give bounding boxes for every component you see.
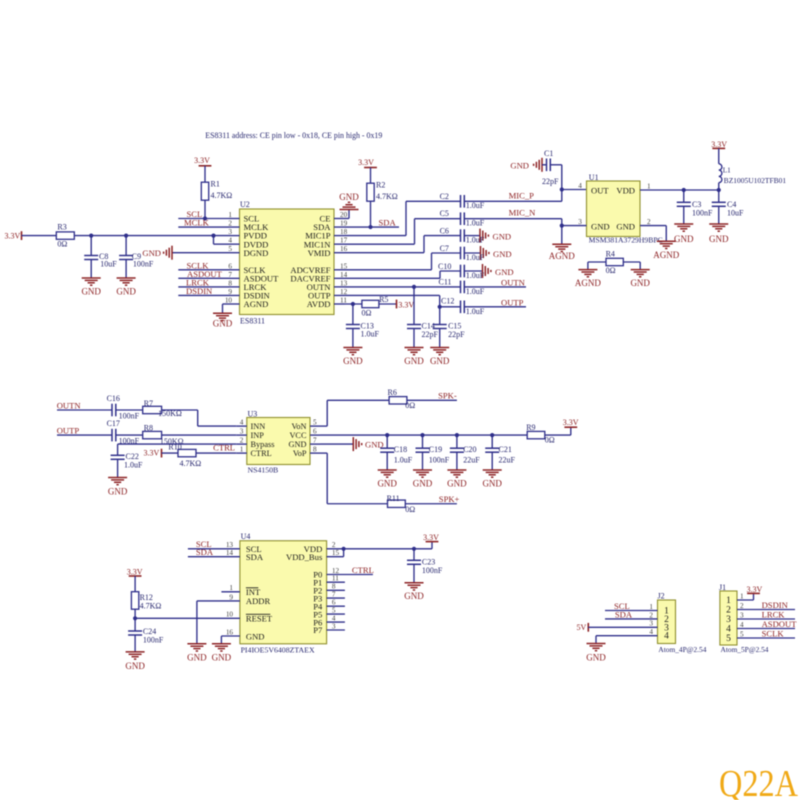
svg-text:4: 4 — [332, 615, 336, 623]
svg-text:9: 9 — [229, 593, 233, 601]
svg-text:GND: GND — [81, 287, 101, 297]
svg-text:AGND: AGND — [575, 278, 601, 288]
svg-text:14: 14 — [226, 549, 234, 557]
svg-text:GND: GND — [212, 653, 232, 663]
svg-text:3: 3 — [726, 615, 731, 625]
svg-text:1.0uF: 1.0uF — [466, 219, 485, 228]
svg-text:VoP: VoP — [293, 449, 307, 458]
svg-text:INP: INP — [251, 431, 265, 440]
svg-text:R3: R3 — [57, 223, 66, 232]
svg-text:Q22A: Q22A — [719, 763, 798, 800]
svg-text:GND: GND — [430, 356, 450, 366]
svg-text:SDA: SDA — [246, 552, 264, 562]
svg-text:6: 6 — [332, 599, 336, 607]
svg-text:GND: GND — [447, 479, 467, 489]
svg-text:R4: R4 — [606, 250, 615, 259]
svg-text:VDD: VDD — [616, 186, 635, 196]
svg-text:C12: C12 — [441, 296, 454, 305]
svg-text:R7: R7 — [144, 399, 153, 408]
svg-text:3.3V: 3.3V — [144, 448, 160, 457]
svg-text:INN: INN — [251, 422, 266, 431]
svg-text:22uF: 22uF — [499, 455, 516, 464]
svg-text:GND: GND — [246, 631, 265, 641]
svg-text:1: 1 — [726, 596, 731, 606]
svg-text:C5: C5 — [440, 209, 449, 218]
svg-text:U2: U2 — [240, 200, 250, 209]
svg-text:3.3V: 3.3V — [747, 585, 763, 594]
svg-text:2: 2 — [740, 602, 744, 610]
svg-text:1: 1 — [229, 584, 233, 592]
svg-text:2: 2 — [240, 437, 244, 445]
svg-text:C1: C1 — [544, 149, 553, 158]
svg-text:3.3V: 3.3V — [711, 140, 727, 149]
svg-text:3.3V: 3.3V — [127, 567, 143, 576]
svg-text:GND: GND — [493, 249, 512, 259]
svg-text:150KΩ: 150KΩ — [158, 409, 182, 418]
svg-text:16: 16 — [340, 245, 348, 253]
svg-text:U4: U4 — [241, 532, 251, 541]
svg-text:C20: C20 — [463, 445, 476, 454]
svg-text:4: 4 — [228, 237, 232, 245]
svg-text:GND: GND — [377, 479, 397, 489]
svg-text:GND: GND — [339, 192, 359, 202]
svg-text:7: 7 — [313, 437, 317, 445]
svg-text:3: 3 — [578, 218, 582, 226]
svg-text:16: 16 — [226, 628, 234, 636]
svg-text:AGND: AGND — [549, 251, 575, 261]
svg-text:4: 4 — [240, 419, 244, 427]
svg-text:C16: C16 — [107, 394, 120, 403]
svg-text:6: 6 — [313, 428, 317, 436]
svg-text:1.0uF: 1.0uF — [361, 330, 380, 339]
svg-text:C11: C11 — [439, 278, 452, 287]
svg-text:2: 2 — [228, 220, 232, 228]
svg-text:PI4IOE5V6408ZTAEX: PI4IOE5V6408ZTAEX — [241, 646, 316, 655]
svg-text:1.0uF: 1.0uF — [466, 236, 485, 245]
svg-text:1: 1 — [228, 211, 232, 219]
svg-text:3: 3 — [649, 620, 653, 628]
svg-text:0Ω: 0Ω — [545, 435, 555, 444]
svg-text:1.0uF: 1.0uF — [466, 253, 485, 262]
svg-text:GND: GND — [482, 479, 502, 489]
svg-text:GND: GND — [116, 287, 136, 297]
svg-text:3.3V: 3.3V — [423, 533, 439, 542]
svg-text:3.3V: 3.3V — [194, 156, 210, 165]
svg-text:1.0uF: 1.0uF — [124, 461, 143, 470]
svg-text:22pF: 22pF — [542, 177, 559, 186]
svg-text:10: 10 — [225, 297, 233, 305]
svg-text:VDD_Bus: VDD_Bus — [286, 552, 323, 562]
svg-text:4.7KΩ: 4.7KΩ — [211, 191, 233, 200]
svg-text:1: 1 — [649, 603, 653, 611]
svg-text:GND: GND — [213, 319, 233, 329]
svg-text:SDA: SDA — [196, 547, 214, 557]
svg-text:ES8311: ES8311 — [240, 317, 265, 326]
svg-text:L1: L1 — [723, 167, 731, 175]
svg-text:18: 18 — [340, 228, 348, 236]
svg-text:GND: GND — [413, 479, 433, 489]
svg-text:1.0uF: 1.0uF — [466, 307, 485, 316]
svg-text:OUTN: OUTN — [57, 400, 82, 410]
svg-text:5: 5 — [228, 245, 232, 253]
svg-text:22pF: 22pF — [422, 330, 439, 339]
svg-text:0Ω: 0Ω — [405, 401, 415, 410]
svg-text:19: 19 — [340, 220, 348, 228]
svg-text:2: 2 — [647, 218, 651, 226]
svg-text:GND: GND — [404, 591, 424, 601]
svg-text:2: 2 — [726, 606, 731, 616]
svg-text:CTRL: CTRL — [251, 449, 272, 458]
svg-text:22pF: 22pF — [448, 330, 465, 339]
svg-text:GND: GND — [630, 278, 650, 288]
svg-text:R6: R6 — [388, 388, 397, 397]
svg-text:6: 6 — [228, 262, 232, 270]
svg-text:4: 4 — [726, 625, 731, 635]
svg-text:CTRL: CTRL — [213, 443, 235, 453]
svg-text:1: 1 — [647, 182, 651, 190]
svg-text:R5: R5 — [379, 295, 388, 304]
svg-text:3: 3 — [228, 228, 232, 236]
svg-text:AVDD: AVDD — [307, 299, 331, 309]
svg-text:9: 9 — [228, 288, 232, 296]
svg-text:3.3V: 3.3V — [563, 418, 579, 427]
svg-text:GND: GND — [493, 231, 512, 241]
svg-text:GND: GND — [404, 356, 424, 366]
svg-text:3: 3 — [332, 622, 336, 630]
svg-text:15: 15 — [332, 549, 340, 557]
svg-text:1.0uF: 1.0uF — [466, 271, 485, 280]
svg-text:GND: GND — [591, 222, 610, 232]
svg-text:R11: R11 — [387, 494, 400, 503]
svg-text:100nF: 100nF — [119, 411, 140, 420]
svg-text:7: 7 — [332, 591, 336, 599]
svg-text:AGND: AGND — [653, 250, 679, 260]
svg-text:GND: GND — [343, 356, 363, 366]
svg-text:RESET: RESET — [246, 614, 273, 624]
svg-text:R9: R9 — [526, 423, 535, 432]
svg-text:CTRL: CTRL — [352, 565, 374, 575]
svg-text:J1: J1 — [719, 583, 726, 592]
svg-text:5: 5 — [726, 634, 731, 644]
svg-text:100nF: 100nF — [429, 455, 450, 464]
svg-text:13: 13 — [226, 541, 234, 549]
svg-text:LRCK: LRCK — [762, 610, 786, 620]
svg-text:MCLK: MCLK — [184, 218, 210, 228]
svg-text:5: 5 — [740, 630, 744, 638]
svg-text:C17: C17 — [107, 419, 120, 428]
svg-text:GND: GND — [289, 440, 307, 449]
svg-text:15: 15 — [340, 262, 348, 270]
svg-text:MIC_P: MIC_P — [509, 191, 535, 201]
svg-text:SDA: SDA — [615, 609, 633, 619]
svg-text:3.3V: 3.3V — [358, 158, 374, 167]
svg-text:R2: R2 — [376, 181, 385, 190]
svg-text:10uF: 10uF — [727, 208, 744, 217]
svg-text:ES8311 address: CE pin low - 0: ES8311 address: CE pin low - 0x18, CE pi… — [205, 131, 382, 140]
svg-text:1.0uF: 1.0uF — [466, 287, 485, 296]
svg-text:Atom_4P@2.54: Atom_4P@2.54 — [658, 646, 706, 654]
svg-text:C10: C10 — [438, 262, 451, 271]
svg-text:DSDIN: DSDIN — [762, 600, 789, 610]
svg-text:GND: GND — [616, 222, 635, 232]
svg-text:C7: C7 — [440, 244, 449, 253]
svg-text:4.7KΩ: 4.7KΩ — [180, 459, 202, 468]
svg-text:GND: GND — [709, 234, 729, 244]
svg-text:DGND: DGND — [244, 248, 269, 258]
svg-text:GND: GND — [586, 652, 606, 662]
svg-text:14: 14 — [340, 271, 348, 279]
svg-text:GND: GND — [187, 653, 207, 663]
svg-text:5: 5 — [332, 607, 336, 615]
svg-text:GND: GND — [365, 439, 384, 449]
svg-text:8: 8 — [332, 583, 336, 591]
svg-text:1: 1 — [740, 592, 744, 600]
svg-text:100nF: 100nF — [133, 259, 154, 268]
svg-text:3: 3 — [740, 611, 744, 619]
svg-text:VMID: VMID — [308, 248, 331, 258]
svg-text:10uF: 10uF — [100, 259, 117, 268]
svg-text:0Ω: 0Ω — [57, 239, 67, 248]
svg-text:13: 13 — [340, 279, 348, 287]
svg-text:11: 11 — [340, 297, 347, 305]
svg-text:1.0uF: 1.0uF — [466, 201, 485, 210]
svg-text:ASDOUT: ASDOUT — [762, 619, 798, 629]
svg-text:Bypass: Bypass — [251, 440, 275, 449]
svg-text:GND: GND — [142, 248, 161, 258]
svg-text:J2: J2 — [658, 592, 665, 601]
svg-text:4.7KΩ: 4.7KΩ — [140, 602, 162, 611]
svg-text:GND: GND — [674, 234, 694, 244]
svg-text:C19: C19 — [429, 445, 442, 454]
svg-text:0Ω: 0Ω — [606, 266, 616, 275]
svg-text:4.7KΩ: 4.7KΩ — [376, 192, 398, 201]
svg-text:VCC: VCC — [289, 431, 307, 440]
svg-text:C21: C21 — [499, 445, 512, 454]
svg-text:Atom_5P@2.54: Atom_5P@2.54 — [721, 646, 769, 654]
svg-text:ADDR: ADDR — [246, 596, 271, 606]
svg-text:OUT: OUT — [591, 186, 609, 196]
svg-text:20: 20 — [340, 211, 348, 219]
svg-text:NS4150B: NS4150B — [248, 466, 279, 475]
svg-text:AGND: AGND — [244, 299, 269, 309]
svg-text:MSM381A3729H9BPC: MSM381A3729H9BPC — [589, 236, 663, 244]
svg-text:0Ω: 0Ω — [362, 309, 372, 318]
svg-text:R10: R10 — [168, 442, 181, 451]
svg-text:3.3V: 3.3V — [398, 300, 414, 309]
svg-text:7: 7 — [228, 271, 232, 279]
svg-text:GND: GND — [510, 160, 529, 170]
svg-text:1: 1 — [240, 446, 244, 454]
svg-text:C6: C6 — [440, 226, 449, 235]
svg-text:U1: U1 — [589, 173, 599, 182]
svg-text:OUTP: OUTP — [501, 297, 524, 307]
svg-text:4: 4 — [649, 628, 653, 636]
svg-text:C18: C18 — [394, 445, 407, 454]
svg-text:3: 3 — [240, 428, 244, 436]
svg-text:100nF: 100nF — [143, 635, 164, 644]
svg-text:GND: GND — [108, 487, 128, 497]
svg-text:U3: U3 — [248, 410, 258, 419]
svg-text:2: 2 — [332, 541, 336, 549]
svg-text:R8: R8 — [144, 424, 153, 433]
svg-text:GND: GND — [495, 267, 514, 277]
svg-text:8: 8 — [228, 279, 232, 287]
svg-text:4: 4 — [740, 621, 744, 629]
svg-text:MIC_N: MIC_N — [509, 208, 537, 218]
svg-text:P7: P7 — [313, 625, 323, 635]
svg-text:DSDIN: DSDIN — [186, 286, 213, 296]
svg-text:11: 11 — [332, 575, 339, 583]
svg-text:100nF: 100nF — [692, 208, 713, 217]
svg-text:12: 12 — [340, 288, 348, 296]
svg-text:R1: R1 — [211, 180, 220, 189]
svg-text:1.0uF: 1.0uF — [394, 455, 413, 464]
svg-text:SDA: SDA — [379, 218, 397, 228]
svg-text:0Ω: 0Ω — [405, 505, 415, 514]
svg-text:10: 10 — [226, 611, 234, 619]
svg-text:OUTN: OUTN — [501, 277, 526, 287]
svg-text:2: 2 — [649, 611, 653, 619]
svg-text:5V: 5V — [577, 623, 587, 632]
svg-text:OUTP: OUTP — [57, 425, 80, 435]
svg-text:3.3V: 3.3V — [5, 231, 21, 240]
svg-text:22uF: 22uF — [463, 455, 480, 464]
svg-text:BZ1005U102TFB01: BZ1005U102TFB01 — [724, 177, 787, 185]
svg-text:8: 8 — [313, 446, 317, 454]
svg-text:100nF: 100nF — [422, 566, 443, 575]
svg-text:SPK+: SPK+ — [439, 494, 460, 504]
svg-text:5: 5 — [313, 419, 317, 427]
svg-text:VoN: VoN — [291, 422, 306, 431]
svg-text:C2: C2 — [440, 192, 449, 201]
svg-text:4: 4 — [664, 632, 669, 642]
svg-text:GND: GND — [125, 661, 145, 671]
svg-text:4: 4 — [578, 182, 582, 190]
svg-text:SPK-: SPK- — [438, 391, 457, 401]
svg-text:SCLK: SCLK — [762, 629, 785, 639]
svg-text:17: 17 — [340, 237, 348, 245]
